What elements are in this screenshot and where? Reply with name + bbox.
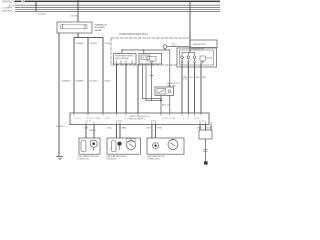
svg-text:RELAY BOX NO.2: RELAY BOX NO.2 [193,43,207,46]
svg-text:11 F2: 11 F2 [138,118,143,120]
svg-text:TROL UNIT: TROL UNIT [167,85,177,87]
svg-text:W-16 RED: W-16 RED [76,43,84,45]
svg-text:GRN B: GRN B [157,127,163,129]
svg-text:W-17 BLU: W-17 BLU [90,43,98,45]
svg-text:LEFT R: LEFT R [142,57,149,59]
svg-text:8 R01: 8 R01 [151,121,156,123]
svg-text:G-10 WHT R: G-10 WHT R [3,8,13,10]
svg-text:17 28: 17 28 [194,118,199,120]
svg-text:7 W12: 7 W12 [104,118,110,120]
svg-text:POWER WINDOW RELAY BOX A: POWER WINDOW RELAY BOX A [119,33,148,36]
svg-text:BRN 12: BRN 12 [162,104,170,106]
svg-text:21 44 J: 21 44 J [199,121,206,123]
svg-text:5 BLU: 5 BLU [146,127,151,129]
svg-text:R WINDOW Q 2: R WINDOW Q 2 [148,158,162,160]
svg-text:5 K14: 5 K14 [75,118,81,120]
svg-text:RED: RED [196,77,200,79]
svg-text:W-16 BLK W: W-16 BLK W [62,80,72,82]
svg-text:BLU: BLU [189,77,193,79]
svg-text:GRN W: GRN W [121,127,126,129]
svg-text:9 C77: 9 C77 [183,118,189,120]
svg-text:3 G55: 3 G55 [125,118,131,120]
svg-text:19 A3: 19 A3 [95,117,100,120]
svg-text:16 22: 16 22 [86,121,91,123]
svg-text:W-3 30A: W-3 30A [71,15,79,18]
svg-text:W-18 G: W-18 G [105,43,111,45]
svg-text:WINDOW RELAY: WINDOW RELAY [115,57,130,60]
svg-text:HOT AT ALL T: HOT AT ALL T [2,1,15,4]
svg-text:RED BLK: RED BLK [89,130,97,132]
svg-text:2 B4: 2 B4 [162,118,167,120]
svg-text:3 RED: 3 RED [197,127,202,129]
svg-text:G-11 BLK RUN: G-11 BLK RUN [1,11,12,13]
svg-text:2 BLU: 2 BLU [107,127,112,129]
svg-text:W-16 RED: W-16 RED [76,80,84,82]
svg-text:6 T09: 6 T09 [170,118,175,120]
svg-text:POWER WINDOW R: POWER WINDOW R [191,49,205,51]
svg-text:W-17 BLU: W-17 BLU [90,80,98,82]
svg-text:C/B 20A: C/B 20A [206,57,213,60]
svg-text:W-18 G: W-18 G [105,80,111,82]
svg-text:13 B22: 13 B22 [116,121,122,123]
svg-text:30A W: 30A W [172,45,177,48]
svg-text:W-16 BLK: W-16 BLK [38,13,47,15]
svg-text:BLK 4: BLK 4 [207,127,213,129]
svg-text:INDOW QTR: INDOW QTR [107,158,117,160]
svg-text:30A MAIN: 30A MAIN [94,29,102,32]
svg-text:W-16 BLK 2: W-16 BLK 2 [56,126,66,128]
svg-text:DOW MOTOR 5: DOW MOTOR 5 [78,158,91,160]
